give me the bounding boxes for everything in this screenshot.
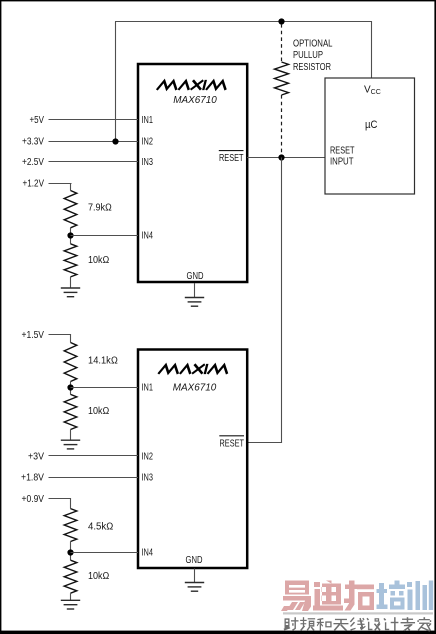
wire VCC rail vertical from +3.3V node	[115, 22, 117, 142]
wire divider to IN1 U2	[71, 387, 139, 389]
wire R4 to ground	[70, 430, 72, 441]
wire R6 to ground	[70, 593, 72, 600]
svg-text:+3.3V: +3.3V	[22, 137, 44, 148]
svg-text:RESET: RESET	[220, 439, 245, 450]
svg-text:IN1: IN1	[142, 115, 154, 126]
watermark tagline (CJK approximated)	[284, 617, 432, 631]
wire U2 GND to ground	[194, 569, 196, 583]
ground under R2	[61, 288, 80, 297]
svg-text:7.9kΩ: 7.9kΩ	[88, 203, 112, 214]
svg-text:IN3: IN3	[142, 473, 154, 484]
wire U1 GND to ground	[194, 283, 196, 298]
node junction R5/R6 divider	[67, 549, 73, 555]
svg-text:IN3: IN3	[142, 157, 154, 168]
wire R5 to R6	[70, 542, 72, 561]
resistor R 14.1k	[64, 343, 77, 382]
node junction VCC rail / pullup	[278, 18, 284, 24]
IC U2 MAX6710 box	[138, 350, 247, 569]
svg-text:+3V: +3V	[28, 452, 44, 463]
IC U1 MAX6710 box	[138, 64, 247, 282]
wire divider to IN4 U2	[71, 552, 139, 554]
svg-text:IN4: IN4	[142, 231, 154, 242]
wire +1.5V horizontal	[49, 334, 72, 336]
wire VCC rail horizontal top	[115, 21, 372, 23]
svg-text:µC: µC	[365, 119, 378, 131]
border frame	[0, 0, 436, 1]
watermark logo char Tuo	[344, 581, 374, 611]
wire +3.3V to IN2	[49, 141, 139, 143]
svg-text:+1.5V: +1.5V	[22, 330, 45, 341]
svg-text:MAX6710: MAX6710	[173, 94, 217, 106]
wire +0.9V horizontal	[49, 498, 72, 500]
svg-text:4.5kΩ: 4.5kΩ	[88, 521, 114, 532]
resistor R 7.9k	[64, 191, 77, 228]
uC box	[325, 78, 415, 194]
wire R1 to R2	[70, 228, 72, 244]
wire +2.5V to IN3	[49, 161, 139, 163]
wire RESET net vertical	[281, 158, 283, 443]
overline RESET U2	[219, 435, 244, 437]
resistor R 10k	[64, 244, 77, 277]
svg-text:+0.9V: +0.9V	[22, 494, 45, 505]
resistor R 4.5k	[64, 509, 77, 542]
wire +5V to IN1	[49, 119, 139, 121]
wire +1.5V down to R3	[70, 335, 72, 343]
wire dashed pullup top	[281, 24, 283, 62]
ground U1 GND	[185, 298, 204, 307]
resistor R 10k second	[64, 394, 77, 429]
node junction R3/R4 divider	[67, 384, 73, 390]
wire VCC rail drop to uC	[371, 21, 373, 78]
svg-text:GND: GND	[186, 555, 203, 566]
svg-text:RESET: RESET	[219, 153, 244, 164]
wire +3V to IN2 U2	[49, 455, 139, 457]
watermark logo char Yi	[281, 581, 311, 612]
node junction +3.3V / VCC rail	[112, 138, 118, 144]
watermark separator line	[283, 612, 433, 614]
svg-text:RESISTOR: RESISTOR	[293, 62, 331, 73]
svg-text:PULLUP: PULLUP	[293, 50, 323, 61]
logo MAXIM U2	[159, 365, 229, 373]
watermark logo char Di	[313, 581, 343, 611]
watermark logo char Pei	[377, 581, 406, 610]
wire +0.9V down to R5	[70, 499, 72, 509]
wire +1.2V horizontal	[49, 183, 72, 185]
wire RESET U1 to uC	[247, 157, 325, 159]
ground U2 GND	[185, 583, 204, 592]
ground under R4	[61, 440, 80, 449]
svg-text:IN2: IN2	[142, 452, 154, 463]
svg-text:10kΩ: 10kΩ	[88, 406, 110, 417]
svg-text:IN1: IN1	[142, 383, 154, 394]
resistor optional pullup	[275, 62, 289, 95]
svg-text:IN4: IN4	[142, 548, 154, 559]
wire RESET U2 horizontal	[247, 442, 282, 444]
node junction RESET net	[278, 154, 284, 160]
svg-text:14.1kΩ: 14.1kΩ	[88, 356, 118, 367]
svg-text:+1.2V: +1.2V	[23, 179, 45, 190]
wire +1.8V to IN3 U2	[49, 477, 139, 479]
wire R3 to R4	[70, 382, 72, 395]
overline RESET U1	[219, 150, 244, 152]
node junction R1/R2 divider	[67, 232, 73, 238]
ground under R6	[61, 600, 80, 609]
svg-text:10kΩ: 10kΩ	[88, 255, 110, 266]
svg-text:INPUT: INPUT	[330, 157, 354, 168]
svg-text:MAX6710: MAX6710	[173, 381, 217, 393]
svg-text:OPTIONAL: OPTIONAL	[293, 38, 333, 49]
svg-text:RESET: RESET	[330, 146, 355, 157]
svg-text:IN2: IN2	[142, 137, 154, 148]
svg-text:+5V: +5V	[30, 115, 45, 126]
wire divider to IN4	[71, 235, 139, 237]
svg-text:+2.5V: +2.5V	[22, 157, 44, 168]
svg-text:+1.8V: +1.8V	[21, 473, 44, 484]
wire R2 to ground	[70, 277, 72, 288]
wire +1.2V down to R1	[70, 183, 72, 191]
svg-text:10kΩ: 10kΩ	[88, 571, 110, 582]
watermark logo char Xun	[407, 581, 433, 611]
wire dashed pullup bottom	[281, 95, 283, 154]
logo MAXIM U1	[158, 81, 228, 89]
svg-text:GND: GND	[187, 271, 204, 282]
resistor R 10k third	[64, 560, 77, 593]
